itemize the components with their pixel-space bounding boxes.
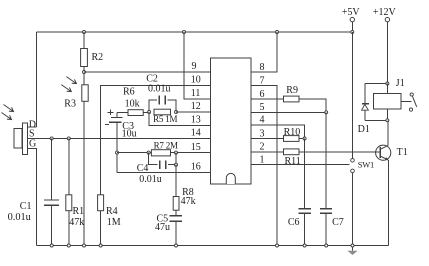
ground symbol bbox=[352, 247, 354, 250]
relay J1 coil bbox=[386, 84, 388, 94]
svg-text:R4: R4 bbox=[106, 206, 118, 217]
junction ground rail x=352.5 bbox=[351, 244, 354, 247]
resistor R6 bbox=[128, 110, 143, 116]
light arrows at R3 bbox=[66, 77, 76, 84]
wire +5V to SW1 bbox=[351, 32, 353, 158]
junction ground rail x=277 bbox=[276, 244, 279, 247]
svg-text:C1: C1 bbox=[20, 201, 32, 212]
svg-text:6: 6 bbox=[260, 89, 265, 100]
capacitor C2 bbox=[149, 100, 157, 112]
svg-text:C6: C6 bbox=[288, 217, 300, 228]
svg-text:0.01u: 0.01u bbox=[148, 83, 171, 94]
node R7 right bbox=[175, 151, 178, 154]
wire sensor S to pin 14 bbox=[28, 137, 211, 139]
svg-text:12: 12 bbox=[191, 101, 201, 112]
svg-text:SW1: SW1 bbox=[358, 159, 374, 169]
wire pin 6 bbox=[251, 98, 284, 100]
+5V terminal bbox=[350, 17, 354, 21]
svg-text:16: 16 bbox=[191, 162, 201, 173]
node relay bottom bbox=[386, 119, 389, 122]
junction C3 at pin15 line bbox=[116, 151, 119, 154]
wire pin 1 bbox=[251, 164, 350, 166]
IC U1 body bbox=[211, 58, 252, 184]
svg-text:J1: J1 bbox=[396, 78, 405, 89]
wire pin 9 bbox=[84, 71, 211, 73]
resistor R8 bbox=[175, 165, 177, 197]
node A osc bbox=[148, 111, 151, 114]
wire pin 8 to +5V rail bbox=[251, 32, 277, 72]
svg-text:0.01u: 0.01u bbox=[8, 212, 31, 223]
capacitor C7 bbox=[325, 112, 327, 208]
wire pin 2 bbox=[251, 151, 284, 153]
node C4 right bbox=[175, 163, 178, 166]
light arrows at sensor bbox=[4, 105, 14, 112]
svg-text:2: 2 bbox=[260, 142, 265, 153]
transistor T1 circle bbox=[376, 145, 391, 160]
svg-text:+5V: +5V bbox=[342, 7, 361, 18]
svg-text:0.01u: 0.01u bbox=[139, 174, 162, 185]
+12V terminal bbox=[385, 17, 389, 21]
svg-text:1: 1 bbox=[260, 154, 265, 165]
svg-text:47k: 47k bbox=[69, 217, 84, 228]
wire R10 to node bbox=[299, 138, 305, 140]
resistor R1 bbox=[68, 138, 70, 194]
wire R2 to R3 bbox=[83, 67, 85, 85]
wire pin 12 bbox=[176, 111, 211, 113]
C3 plus sign bbox=[108, 109, 114, 115]
C3 minus sign bbox=[105, 124, 109, 126]
svg-text:R2: R2 bbox=[92, 52, 104, 63]
transistor T1 emitter bbox=[380, 156, 388, 160]
svg-text:5: 5 bbox=[260, 102, 265, 113]
switch SW1 bottom contact bbox=[351, 169, 355, 173]
transistor T1 collector bbox=[380, 145, 388, 149]
wire pin 3 bbox=[251, 138, 284, 140]
svg-text:1M: 1M bbox=[107, 217, 121, 228]
svg-text:9: 9 bbox=[192, 61, 197, 72]
resistor R3 bbox=[82, 85, 88, 102]
wire pin 13 bbox=[149, 112, 210, 125]
junction R2-R3 node pin9 bbox=[83, 71, 86, 74]
resistor R5 bbox=[154, 109, 171, 115]
junction ground rail x=51.7 bbox=[50, 244, 53, 247]
svg-text:T1: T1 bbox=[397, 147, 408, 158]
resistor R2 bbox=[81, 49, 88, 67]
resistor R9 bbox=[284, 96, 300, 102]
transistor T1 base bar bbox=[379, 147, 381, 158]
wire pin 11 to +5V rail bbox=[184, 32, 211, 99]
wire pin 10 to R4 bbox=[101, 86, 211, 195]
junction top rail at pin11 riser bbox=[183, 31, 186, 34]
node R7 left bbox=[147, 151, 150, 154]
svg-text:R5 1M: R5 1M bbox=[153, 114, 177, 124]
junction top rail at +5V bbox=[351, 31, 354, 34]
relay contact stub bbox=[401, 101, 412, 103]
junction R8 branch at ground bbox=[175, 244, 178, 247]
resistor R10 bbox=[284, 136, 300, 142]
wire sensor D to left border bbox=[28, 126, 37, 128]
svg-text:R3: R3 bbox=[64, 98, 76, 109]
wire R3 to ground bbox=[83, 101, 85, 245]
svg-text:10k: 10k bbox=[125, 99, 140, 110]
svg-text:R1: R1 bbox=[73, 206, 85, 217]
wire pin 7 to ground bbox=[251, 86, 277, 246]
svg-text:3: 3 bbox=[260, 128, 265, 139]
junction ground rail x=326.2 bbox=[325, 244, 328, 247]
junction S line at C1 bbox=[50, 137, 53, 140]
svg-text:13: 13 bbox=[191, 115, 201, 126]
junction top rail at pin8 riser bbox=[276, 31, 279, 34]
svg-text:C7: C7 bbox=[332, 217, 344, 228]
IC U1 notch bbox=[226, 173, 235, 184]
capacitor C6 bbox=[304, 139, 306, 209]
resistor R4 bbox=[98, 195, 104, 211]
junction ground rail x=68.8 bbox=[67, 244, 70, 247]
capacitor C5 bbox=[175, 210, 177, 215]
capacitor C4 bbox=[149, 153, 158, 165]
svg-text:D1: D1 bbox=[358, 124, 370, 135]
relay contact lower bbox=[409, 108, 412, 111]
switch SW1 top contact bbox=[351, 159, 355, 163]
svg-text:+12V: +12V bbox=[373, 7, 397, 18]
resistor R11 bbox=[284, 149, 300, 155]
wire T1 collector to relay bbox=[387, 120, 389, 145]
node relay top bbox=[386, 82, 389, 85]
wire pin 15 bbox=[117, 152, 211, 154]
wire R2 top bbox=[83, 32, 85, 49]
junction top rail at R2 bbox=[83, 31, 86, 34]
svg-text:G: G bbox=[29, 138, 36, 149]
svg-text:10: 10 bbox=[191, 75, 201, 86]
svg-text:14: 14 bbox=[191, 128, 201, 139]
wire pin 16 bbox=[117, 171, 211, 173]
junction S line at R1 bbox=[67, 137, 70, 140]
wire ground bottom rail bbox=[37, 245, 389, 247]
junction ground rail x=304.6 bbox=[303, 244, 306, 247]
svg-text:47k: 47k bbox=[181, 196, 196, 207]
wire sensor G to ground bbox=[28, 148, 37, 245]
diode D1 bbox=[365, 83, 386, 85]
capacitor C1 bbox=[51, 138, 53, 200]
wire R11 to T1 base bbox=[299, 151, 380, 153]
svg-text:R6: R6 bbox=[123, 86, 135, 97]
svg-text:47u: 47u bbox=[155, 222, 170, 233]
svg-text:7: 7 bbox=[260, 75, 265, 86]
resistor R7 bbox=[151, 150, 170, 156]
wire SW1 to ground bbox=[352, 173, 354, 246]
capacitor C3 bbox=[116, 113, 118, 117]
node pin5-R9 bbox=[325, 111, 328, 114]
svg-text:10u: 10u bbox=[122, 129, 137, 140]
wire T1 emitter to ground bbox=[387, 160, 389, 246]
wire pin 4 bbox=[251, 125, 305, 139]
svg-text:R7 2M: R7 2M bbox=[154, 140, 178, 150]
wire +5V top rail bbox=[37, 31, 353, 33]
svg-text:11: 11 bbox=[191, 88, 201, 99]
junction ground rail x=84 bbox=[83, 244, 86, 247]
svg-text:15: 15 bbox=[191, 142, 201, 153]
sensor B1 body bbox=[14, 129, 22, 149]
svg-text:R9: R9 bbox=[286, 85, 298, 96]
wire left border bbox=[36, 32, 38, 127]
junction ground rail x=100.6 bbox=[99, 244, 102, 247]
relay contact blade bbox=[412, 96, 416, 107]
node B osc bbox=[175, 111, 178, 114]
svg-text:R10: R10 bbox=[284, 127, 301, 138]
wire pin 5 bbox=[251, 111, 326, 113]
svg-text:4: 4 bbox=[260, 115, 265, 126]
svg-text:8: 8 bbox=[260, 62, 265, 73]
svg-text:R11: R11 bbox=[285, 156, 301, 167]
wire R9 to C7 riser bbox=[299, 99, 326, 112]
node pin3-pin4-C6 bbox=[303, 137, 306, 140]
relay contact upper bbox=[410, 93, 413, 96]
